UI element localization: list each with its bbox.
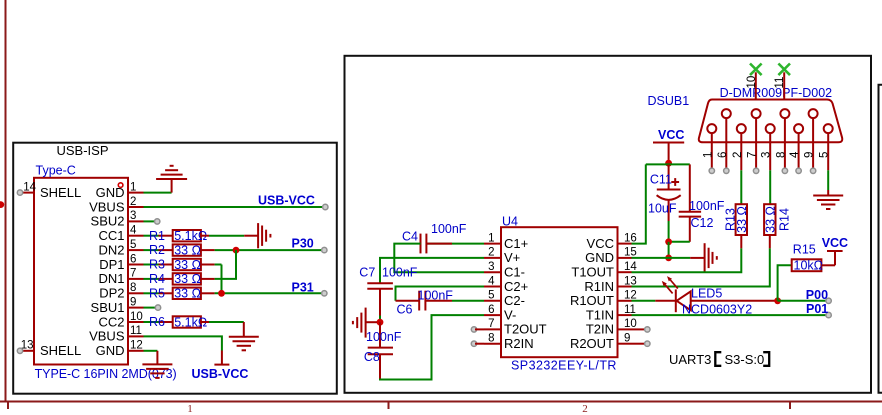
- svg-text:SHELL: SHELL: [40, 185, 81, 200]
- wire P00: [778, 300, 828, 302]
- wire end dot: [155, 219, 160, 224]
- svg-text:DN2: DN2: [98, 242, 124, 257]
- pin 8 DP2: [99, 282, 143, 301]
- wire GND (pin15) to ground: [632, 257, 691, 259]
- svg-text:CC2: CC2: [98, 314, 124, 329]
- wire end dot: [322, 291, 327, 296]
- svg-text:2: 2: [130, 196, 136, 208]
- pin 7 T2OUT: [484, 318, 547, 337]
- pin10 T2IN stub wire: [632, 328, 647, 330]
- svg-text:10kΩ: 10kΩ: [794, 259, 824, 273]
- pin7 T2OUT stub dot: [471, 327, 476, 332]
- wire R1IN to R14: [632, 248, 770, 286]
- pin 3 SBU2: [91, 210, 144, 229]
- sheet symbol title UART3 S3-S:0: [669, 352, 769, 367]
- DSUB pin 2: [732, 124, 746, 170]
- wire DP1-DP2 link: [221, 265, 223, 294]
- svg-text:C2-: C2-: [504, 293, 525, 308]
- capacitor C8 100nF: [364, 322, 402, 364]
- wire DP1 to link: [215, 264, 222, 266]
- svg-text:5: 5: [819, 152, 831, 158]
- DSUB pin 3: [761, 124, 775, 170]
- resistor R5 33&#937;: [149, 286, 215, 300]
- wire DN1 to link: [215, 278, 237, 280]
- pin 8 R2IN: [484, 333, 534, 352]
- wire end dot: [826, 298, 831, 303]
- svg-text:33 Ω: 33 Ω: [174, 287, 201, 301]
- svg-text:R2OUT: R2OUT: [570, 336, 614, 351]
- svg-text:R4: R4: [149, 272, 165, 286]
- wire R6 to ground: [209, 321, 244, 323]
- svg-text:11: 11: [774, 77, 786, 89]
- resistor R4 33&#937;: [149, 272, 215, 286]
- connector Type-C body: [34, 178, 128, 365]
- wire pin1 GND: [144, 192, 172, 194]
- svg-text:C2+: C2+: [504, 279, 528, 294]
- svg-text:GND: GND: [96, 343, 125, 358]
- svg-text:8: 8: [775, 152, 787, 158]
- svg-text:11: 11: [130, 325, 142, 337]
- polarity mark circle: [118, 183, 123, 188]
- svg-text:10uF: 10uF: [648, 202, 677, 216]
- svg-text:16: 16: [624, 232, 637, 244]
- capacitor C4 100nF: [402, 222, 467, 253]
- svg-text:4: 4: [789, 151, 801, 158]
- resistor R13 33&#937;: [724, 204, 749, 235]
- svg-text:1: 1: [702, 152, 714, 158]
- wire VBUS to port: [144, 336, 222, 350]
- wire R15 to LED junction: [778, 265, 792, 301]
- svg-text:SBU1: SBU1: [91, 300, 125, 315]
- wire T1OUT to R13: [632, 248, 742, 272]
- svg-text:GND: GND: [96, 185, 125, 200]
- wire T1IN / P01: [632, 314, 828, 316]
- wire DN2-DN1 link: [235, 250, 237, 279]
- svg-text:R15: R15: [793, 243, 816, 257]
- svg-text:7: 7: [130, 268, 136, 280]
- wire VCC to pin16: [632, 164, 646, 243]
- svg-text:7: 7: [747, 152, 759, 158]
- sheet border bottom edge: [0, 401, 882, 403]
- wire end dot: [810, 168, 815, 173]
- zone tick left: [7, 402, 9, 410]
- sheet symbol UART3 frame: [345, 56, 872, 393]
- svg-text:R14: R14: [777, 208, 791, 231]
- svg-text:GND: GND: [585, 250, 614, 265]
- svg-text:USB-VCC: USB-VCC: [192, 367, 249, 381]
- power port USB-VCC: [192, 351, 249, 381]
- svg-text:R2: R2: [149, 243, 165, 257]
- resistor R2 33&#937;: [149, 243, 215, 257]
- sheet border left edge: [5, 0, 7, 402]
- resistor R6 5.1k&#937;: [149, 315, 209, 329]
- wire pin12 GND: [144, 350, 158, 352]
- pin8 stub wire: [475, 343, 484, 345]
- pin 9 R2OUT: [570, 333, 632, 352]
- svg-text:100nF: 100nF: [431, 222, 467, 236]
- wire VBUS to USB-VCC: [144, 206, 325, 208]
- wire R14 bottom lead: [769, 235, 771, 248]
- wire R1 to ground: [209, 235, 244, 237]
- svg-text:R1: R1: [149, 229, 165, 243]
- op-amp/IC U4 body: [501, 227, 618, 357]
- svg-text:LED5: LED5: [691, 286, 722, 300]
- svg-text:100nF: 100nF: [418, 288, 454, 302]
- junction DN2/DN1: [233, 247, 240, 254]
- svg-text:T1IN: T1IN: [586, 307, 614, 322]
- svg-text:VCC: VCC: [822, 236, 848, 250]
- pin 14 T1OUT: [571, 261, 637, 280]
- svg-text:USB-ISP: USB-ISP: [57, 143, 109, 158]
- ground tilted left (C7/C8): [353, 308, 377, 338]
- pin 16 VCC: [587, 232, 637, 251]
- svg-text:4: 4: [130, 225, 137, 237]
- DSUB mounting pin 10: [746, 64, 762, 100]
- wire C2+ (pin4): [396, 287, 485, 301]
- svg-text:2: 2: [488, 247, 494, 259]
- pin 7 DN1: [98, 268, 143, 287]
- connector DSUB1 body: [699, 100, 842, 143]
- svg-text:C8: C8: [364, 350, 380, 364]
- capacitor C12 100nF: [679, 164, 725, 241]
- ground below CC2: [229, 322, 259, 350]
- wire end dot: [709, 168, 714, 173]
- svg-text:C12: C12: [691, 216, 714, 230]
- svg-text:1: 1: [187, 403, 193, 415]
- svg-text:P01: P01: [806, 302, 828, 316]
- svg-text:V+: V+: [504, 250, 520, 265]
- svg-text:2: 2: [582, 403, 588, 415]
- pin 12 R1OUT: [570, 290, 637, 309]
- wire SBU2 stub: [144, 220, 157, 222]
- ground tilted right (CC1): [244, 223, 270, 248]
- pin 14 SHELL: [17, 181, 81, 200]
- svg-text:DP2: DP2: [99, 286, 124, 301]
- pin 5 DN2: [98, 239, 143, 258]
- pin 9 SBU1: [91, 296, 144, 315]
- DSUB pin 1: [702, 124, 716, 170]
- wire C8 to V-: [379, 354, 381, 379]
- wire DSUB pin2 to R13: [740, 170, 742, 204]
- capacitor C7 100nF: [359, 266, 418, 289]
- pin 1 C1+: [484, 232, 528, 251]
- svg-text:C6: C6: [397, 302, 413, 316]
- pin 1 GND: [96, 181, 144, 200]
- svg-text:VCC: VCC: [658, 128, 684, 142]
- svg-text:33 Ω: 33 Ω: [174, 258, 201, 272]
- DSUB pin 6: [717, 109, 731, 170]
- svg-text:T2IN: T2IN: [586, 322, 614, 337]
- wire end dot: [753, 168, 758, 173]
- wire end dot: [645, 341, 650, 346]
- svg-text:SBU2: SBU2: [91, 214, 125, 229]
- svg-text:8: 8: [130, 282, 136, 294]
- svg-text:C11: C11: [650, 172, 672, 186]
- DSUB pin 7: [747, 109, 761, 170]
- svg-text:6: 6: [717, 152, 729, 158]
- svg-text:C1-: C1-: [504, 265, 525, 280]
- wire R2 to P30: [215, 249, 323, 251]
- wire DP2 to R5: [144, 292, 159, 294]
- svg-text:9: 9: [130, 296, 136, 308]
- pin8 R2IN stub dot: [471, 341, 476, 346]
- pin 11 T1IN: [586, 304, 636, 323]
- svg-text:S3-S:0: S3-S:0: [725, 352, 765, 367]
- junction DP2/DP1: [218, 290, 225, 297]
- svg-text:DSUB1: DSUB1: [648, 94, 690, 108]
- LED LED5 NCD0603Y2: [655, 276, 777, 316]
- junction LED/R15/P00: [774, 297, 781, 304]
- svg-text:3: 3: [761, 152, 773, 158]
- wire SBU1 stub: [144, 307, 158, 309]
- svg-text:Type-C: Type-C: [36, 163, 76, 177]
- svg-text:1: 1: [130, 181, 136, 193]
- svg-text:DN1: DN1: [98, 271, 124, 286]
- wire DN1 to R4: [144, 278, 159, 280]
- DSUB pin 5: [819, 124, 833, 170]
- wire end dot: [155, 305, 160, 310]
- wire end dot: [796, 168, 801, 173]
- svg-text:SHELL: SHELL: [40, 343, 81, 358]
- pin 10 T2IN: [586, 318, 637, 337]
- svg-text:5: 5: [488, 290, 494, 302]
- pin 6 DP1: [99, 253, 143, 272]
- svg-text:4: 4: [488, 275, 495, 287]
- svg-text:10: 10: [746, 76, 758, 89]
- svg-text:U4: U4: [502, 215, 518, 229]
- sheet symbol USB-ISP frame: [13, 143, 337, 394]
- wire VCC horizontal: [646, 163, 690, 165]
- resistor R3 33&#937;: [149, 258, 215, 272]
- power symbol VCC (R15): [821, 236, 848, 265]
- wire CC1 to R1: [144, 235, 159, 237]
- wire end dot: [322, 247, 327, 252]
- wire end dot: [724, 168, 729, 173]
- DSUB pin 9: [804, 109, 818, 170]
- svg-text:12: 12: [130, 340, 143, 352]
- svg-text:3: 3: [488, 261, 494, 273]
- wire R1OUT to LED: [632, 300, 656, 302]
- svg-text:USB-VCC: USB-VCC: [258, 194, 315, 208]
- svg-text:R5: R5: [149, 286, 165, 300]
- wire R5 to P31: [215, 292, 323, 294]
- svg-text:7: 7: [488, 318, 494, 330]
- svg-text:6: 6: [488, 304, 494, 316]
- svg-text:6: 6: [130, 253, 136, 265]
- svg-text:100nF: 100nF: [689, 199, 725, 213]
- wire R13 bottom lead: [740, 235, 742, 248]
- pin7 stub wire: [475, 328, 484, 330]
- wire C6 to C2-: [452, 300, 484, 302]
- svg-text:8: 8: [488, 333, 494, 345]
- svg-text:R3: R3: [149, 258, 165, 272]
- pin 10 CC2: [98, 311, 143, 330]
- wire DN2 to R2: [144, 249, 159, 251]
- wire C1+ (pin1): [426, 243, 484, 245]
- wire end dot: [323, 204, 328, 209]
- adjacent sheet frame (partial): [879, 85, 882, 393]
- svg-text:2: 2: [732, 152, 744, 158]
- junction GND row: [665, 255, 672, 262]
- ground below pin12: [142, 351, 172, 378]
- pin9 R2OUT stub wire: [632, 343, 647, 345]
- pin 13 SHELL: [17, 340, 81, 359]
- pin 11 VBUS: [89, 325, 143, 344]
- svg-text:33 Ω: 33 Ω: [735, 206, 749, 233]
- svg-text:10: 10: [130, 311, 143, 323]
- DSUB pin 8: [775, 109, 789, 170]
- wire V+ to C7: [380, 258, 484, 283]
- ground below DSUB pin5: [813, 190, 843, 209]
- DSUB mounting pin 11: [774, 64, 790, 100]
- svg-text:33 Ω: 33 Ω: [174, 243, 201, 257]
- junction VCC: [665, 160, 672, 167]
- svg-text:P30: P30: [292, 236, 314, 250]
- svg-text:C1+: C1+: [504, 236, 528, 251]
- pin 4 CC1: [98, 225, 143, 244]
- svg-text:100nF: 100nF: [366, 330, 402, 344]
- svg-text:1: 1: [488, 232, 494, 244]
- wire CC2 to R6: [144, 321, 159, 323]
- svg-text:C4: C4: [402, 230, 418, 244]
- svg-text:C7: C7: [359, 266, 375, 280]
- wire DP1 to R3: [144, 264, 159, 266]
- svg-text:V-: V-: [504, 307, 516, 322]
- pin 4 C2+: [484, 275, 528, 294]
- svg-text:VCC: VCC: [587, 236, 614, 251]
- ground top (inverted): [156, 166, 187, 193]
- svg-text:P31: P31: [292, 280, 314, 294]
- svg-text:33 Ω: 33 Ω: [174, 272, 201, 286]
- pin 12 GND: [96, 340, 144, 359]
- wire C4 left to C1-: [394, 244, 484, 273]
- svg-text:VBUS: VBUS: [89, 199, 125, 214]
- power symbol VCC (C11): [653, 128, 684, 163]
- svg-text:3: 3: [130, 210, 136, 222]
- svg-text:T2OUT: T2OUT: [504, 322, 547, 337]
- svg-text:33 Ω: 33 Ω: [763, 206, 777, 233]
- wire C7 to ground junction: [379, 289, 381, 316]
- svg-text:VBUS: VBUS: [89, 329, 125, 344]
- svg-text:CC1: CC1: [98, 228, 124, 243]
- zone tick middle: [388, 402, 390, 410]
- capacitor C11 10uF polarized: [648, 164, 681, 241]
- svg-text:9: 9: [804, 152, 816, 158]
- svg-text:100nF: 100nF: [382, 266, 418, 280]
- junction C7/C8/ground: [377, 319, 384, 326]
- svg-text:DP1: DP1: [99, 257, 124, 272]
- junction C11/C12: [665, 238, 672, 245]
- svg-text:T1OUT: T1OUT: [571, 265, 614, 280]
- svg-text:R6: R6: [149, 315, 165, 329]
- svg-text:R1OUT: R1OUT: [570, 293, 614, 308]
- pin 5 C2-: [484, 290, 525, 309]
- svg-text:P00: P00: [806, 288, 828, 302]
- svg-text:9: 9: [624, 333, 630, 345]
- svg-text:5: 5: [130, 239, 136, 251]
- wire C12 bottom to junction: [669, 241, 690, 243]
- svg-text:14: 14: [23, 181, 36, 193]
- pin 6 V-: [484, 304, 516, 323]
- DSUB pin 4: [789, 124, 803, 170]
- pin 13 R1IN: [584, 275, 636, 294]
- svg-text:SP3232EEY-L/TR: SP3232EEY-L/TR: [511, 358, 617, 372]
- wire DSUB pin3 to R14: [769, 170, 771, 204]
- wire end dot: [782, 168, 787, 173]
- wire junction to GND row: [668, 242, 670, 258]
- left border marker: [0, 201, 4, 208]
- svg-text:R2IN: R2IN: [504, 336, 534, 351]
- zone tick right: [789, 402, 791, 410]
- pin 15 GND: [585, 247, 637, 266]
- svg-text:UART3: UART3: [669, 352, 711, 367]
- svg-text:R1IN: R1IN: [584, 279, 614, 294]
- resistor R14 33&#937;: [763, 204, 791, 235]
- resistor R15 10k&#937;: [792, 243, 823, 273]
- wire end dot: [826, 312, 831, 317]
- resistor R1 5.1k&#937;: [149, 229, 209, 243]
- C4 right lead: [426, 243, 452, 245]
- pin 2 VBUS: [89, 196, 143, 215]
- wire DSUB pin5 to ground: [827, 170, 829, 190]
- ground tilted right (pin15): [690, 243, 717, 272]
- capacitor C6 100nF: [396, 288, 454, 316]
- wire end dot: [645, 327, 650, 332]
- pin 2 V+: [484, 247, 520, 266]
- pin 3 C1-: [484, 261, 525, 280]
